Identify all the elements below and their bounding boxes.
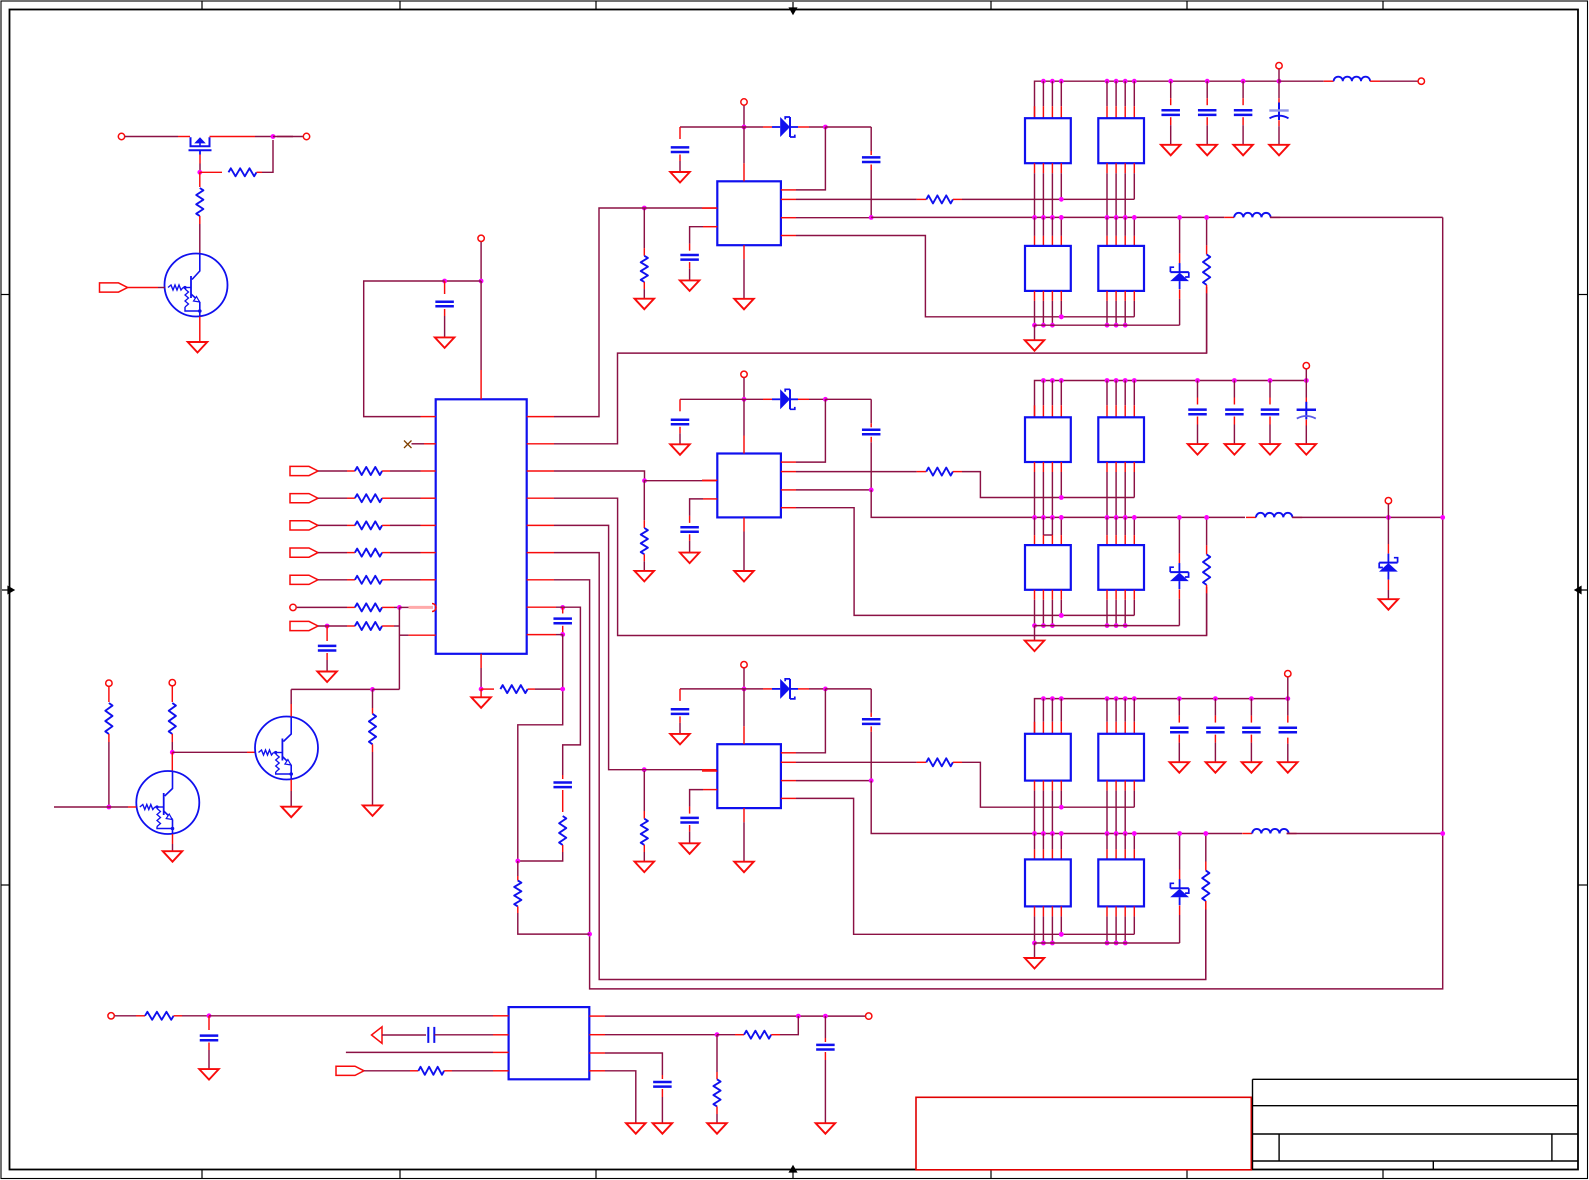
wire pin4 vertical B right — [1133, 217, 1135, 236]
wire — [517, 906, 519, 913]
wire — [210, 136, 256, 138]
junction dot — [642, 767, 647, 772]
zener DZ2out — [1387, 517, 1389, 544]
ground — [1206, 762, 1226, 773]
resistor R14 — [517, 861, 519, 876]
transistor Q2 digital — [165, 254, 228, 317]
ic T3B — [1098, 734, 1144, 781]
junction dot — [1050, 79, 1055, 84]
wire — [679, 155, 681, 162]
no-connect X pin L2 — [404, 441, 412, 449]
wire pin vertical — [1106, 781, 1108, 791]
junction dot — [1041, 323, 1046, 328]
ground — [680, 843, 700, 854]
wire — [382, 497, 390, 499]
wire — [743, 668, 745, 689]
wire pin vertical — [1042, 163, 1044, 173]
wire pin vertical — [1106, 834, 1108, 850]
wire pin vertical — [1124, 517, 1126, 535]
resistor RL1 — [643, 208, 645, 248]
border tick top — [595, 1, 597, 10]
capacitor C4 — [562, 775, 564, 779]
ground — [1188, 444, 1208, 455]
border tick bottom — [990, 1170, 992, 1180]
wire line B bank2 right — [1292, 516, 1443, 518]
wire — [171, 734, 173, 742]
junction dot — [869, 488, 874, 493]
wire pin vertical low — [1115, 291, 1117, 301]
junction dot — [1041, 623, 1046, 628]
wire to line A bank2 — [953, 471, 962, 473]
junction dot — [1123, 323, 1128, 328]
wire pin — [1115, 81, 1117, 106]
wire — [1206, 117, 1208, 125]
wire — [318, 524, 347, 526]
zener DZ1 — [1179, 217, 1181, 253]
wire Q4 collector — [290, 704, 292, 717]
ic T3A — [1025, 734, 1071, 781]
junction dot — [1123, 941, 1128, 946]
wire pin vertical — [1115, 517, 1117, 535]
title block divider — [1432, 1161, 1434, 1169]
wire pin vertical low — [1051, 291, 1053, 301]
wire pin vertical — [1124, 781, 1126, 791]
ic T2C — [1025, 545, 1071, 590]
resistor RA2 — [926, 468, 953, 476]
wire pin — [1124, 699, 1126, 722]
wire pin L1 — [702, 479, 717, 481]
junction dot — [1050, 378, 1055, 383]
ground — [734, 299, 754, 310]
wire pin4 vertical B — [1060, 834, 1062, 850]
wire — [645, 480, 703, 482]
wire U1.R3 to reg2 — [527, 470, 554, 472]
wire — [1214, 735, 1216, 743]
wire pin — [1124, 81, 1126, 106]
wire U1.R6 feedback3 — [527, 552, 554, 554]
ic REG2 — [717, 454, 781, 518]
wire ground bus — [1035, 942, 1180, 944]
wire pin vertical — [1051, 217, 1053, 236]
wire pin vertical low — [1042, 291, 1044, 301]
wire — [1250, 699, 1252, 716]
resistor R16 — [145, 1012, 174, 1020]
wire pin — [1133, 699, 1135, 722]
ground — [734, 571, 754, 582]
capacitor C3 — [562, 607, 564, 613]
wire pin — [1060, 381, 1062, 406]
wire top pin — [743, 689, 745, 726]
wire pin — [1106, 81, 1108, 106]
wire gate stem — [199, 155, 201, 164]
wire — [128, 287, 159, 289]
wire pin vertical — [1051, 462, 1053, 472]
resistor RA — [355, 467, 382, 475]
ground — [635, 571, 655, 582]
wire pin — [1051, 81, 1053, 106]
wire — [640, 769, 702, 771]
wire — [318, 552, 347, 554]
wire pin vertical — [1034, 462, 1036, 472]
junction dot — [1105, 515, 1110, 520]
wire reg3 R2 — [781, 761, 796, 763]
wire — [744, 398, 763, 400]
wire pin vertical low — [1051, 906, 1053, 916]
junction dot — [1177, 515, 1182, 520]
terminal P3 — [478, 235, 484, 241]
border tick right — [1579, 294, 1589, 296]
resistor R8 — [355, 603, 382, 611]
wire — [1278, 69, 1280, 81]
wire pin vertical low — [1106, 906, 1108, 916]
junction dot — [1205, 79, 1210, 84]
capacitor CF22 — [1225, 408, 1244, 411]
wire — [556, 607, 580, 775]
ic REG3 — [717, 744, 781, 808]
wire pin vertical — [1034, 834, 1036, 850]
resistor R17 — [418, 1067, 444, 1075]
border centermark arrow top — [790, 2, 797, 14]
wire ground bus — [1035, 625, 1180, 627]
resistor R18 — [744, 1031, 771, 1039]
junction dot — [1268, 378, 1273, 383]
ground — [635, 299, 655, 310]
wire reg2 R2 — [781, 471, 796, 473]
wire resistor branch — [372, 689, 374, 708]
junction dot — [1050, 941, 1055, 946]
wire — [1034, 626, 1036, 641]
wire — [209, 1015, 493, 1017]
wire — [689, 825, 691, 832]
junction dot — [1050, 623, 1055, 628]
wire pin L3 — [346, 1051, 493, 1053]
ic T3C — [1025, 859, 1071, 906]
transistor Q3 digital — [136, 771, 199, 834]
junction dot — [1123, 215, 1128, 220]
wire — [382, 470, 390, 472]
wire cap chain to line B bank3 — [871, 781, 1242, 834]
wire — [364, 1070, 410, 1072]
wire — [318, 497, 347, 499]
wire — [382, 1034, 426, 1036]
junction dot — [1105, 831, 1110, 836]
wire emitter — [199, 317, 201, 342]
junction dot — [1050, 215, 1055, 220]
border tick left — [1, 884, 10, 886]
wire pin R1 — [781, 752, 796, 754]
wire pin vertical — [1051, 781, 1053, 791]
junction dot — [1132, 515, 1137, 520]
wire pin4 vertical A — [1060, 462, 1062, 472]
junction dot — [742, 687, 747, 692]
wire Q4 emitter — [290, 780, 292, 792]
junction dot — [1059, 314, 1064, 319]
capacitor CP3 polarized — [1279, 726, 1298, 729]
terminal VOUT1top — [1276, 62, 1282, 68]
wire pin vertical low — [1124, 291, 1126, 301]
wire highlighted net — [409, 606, 433, 609]
wire — [1287, 738, 1289, 744]
wire reg1 R3 line B left — [781, 217, 796, 219]
junction dot — [1032, 623, 1037, 628]
wire reg3 R3 — [781, 780, 796, 782]
wire — [679, 716, 681, 723]
wire — [257, 171, 263, 173]
ground — [670, 172, 690, 183]
wire — [273, 136, 293, 138]
wire — [326, 653, 328, 660]
wire pin vertical low — [1106, 291, 1108, 301]
wire pin vertical — [1106, 517, 1108, 535]
capacitor CB1 — [870, 127, 872, 151]
ground — [670, 444, 690, 455]
wire bus to inductor — [1279, 80, 1324, 82]
junction dot — [715, 1032, 720, 1037]
junction dot — [869, 778, 874, 783]
diode D1 — [772, 126, 780, 128]
junction dot — [370, 687, 375, 692]
terminal P4 — [290, 604, 296, 610]
connector flag IND — [290, 548, 318, 557]
wire pin R1 — [781, 461, 796, 463]
junction dot — [1114, 941, 1119, 946]
border tick top — [201, 1, 203, 10]
ground — [1379, 599, 1399, 610]
inductor L1 — [1224, 216, 1234, 218]
wire — [1206, 81, 1208, 98]
wire pin L1 — [702, 207, 717, 209]
ground — [317, 672, 337, 683]
capacitor C6 series — [427, 1027, 429, 1043]
junction dot — [170, 750, 175, 755]
junction dot — [1041, 831, 1046, 836]
ground — [1260, 444, 1280, 455]
wire pin — [1106, 381, 1108, 406]
wire — [689, 534, 691, 541]
wire — [1233, 381, 1235, 398]
wire — [382, 625, 394, 627]
junction dot — [1386, 515, 1391, 520]
border tick right — [1579, 884, 1589, 886]
wire — [717, 1034, 735, 1036]
junction dot — [1059, 932, 1064, 937]
wire — [382, 552, 390, 554]
wire pin vertical low — [1034, 906, 1036, 916]
junction dot — [1032, 515, 1037, 520]
wire pin vertical — [1042, 781, 1044, 791]
ground — [1025, 340, 1045, 351]
wire pin vertical — [1124, 834, 1126, 850]
junction dot — [642, 478, 647, 483]
resistor R11 — [169, 703, 176, 734]
capacitor CF23 — [1261, 408, 1280, 411]
wire — [480, 242, 482, 281]
wire top pin — [743, 399, 745, 435]
wire pin vertical — [1115, 217, 1117, 236]
wire — [444, 1070, 452, 1072]
wire — [1034, 325, 1036, 340]
wire — [1233, 417, 1235, 425]
junction dot — [1059, 495, 1064, 500]
junction dot — [1059, 831, 1064, 836]
junction dot — [1041, 515, 1046, 520]
wire — [640, 207, 702, 209]
wire reg3 R4 to line A2 — [781, 797, 796, 799]
junction dot — [1177, 831, 1182, 836]
wire pin vertical — [1051, 834, 1053, 850]
wire — [1278, 120, 1280, 126]
wire — [1178, 699, 1180, 716]
resistor R13 — [559, 816, 566, 845]
inductor L2 — [1246, 516, 1256, 518]
capacitor CI3 — [671, 708, 690, 711]
connector flag IN1 — [100, 283, 128, 292]
zener DZ3 — [1179, 834, 1181, 870]
ground — [1170, 762, 1190, 773]
wire — [1034, 943, 1036, 958]
wire pin — [1051, 381, 1053, 406]
title block left edge — [1252, 1079, 1254, 1169]
junction dot — [1114, 623, 1119, 628]
wire U1 bottom pin — [480, 654, 482, 668]
wire — [1197, 417, 1199, 425]
resistor R10 — [105, 703, 112, 734]
terminal P1 — [118, 133, 124, 139]
junction dot — [823, 1014, 828, 1019]
ground — [653, 1123, 673, 1134]
ground — [471, 697, 491, 708]
junction dot — [1123, 831, 1128, 836]
junction dot — [1304, 378, 1309, 383]
wire line B bank3 right — [1287, 833, 1443, 835]
capacitor CF33 — [1242, 726, 1261, 729]
junction dot — [560, 687, 565, 692]
terminal VOUT3top — [1285, 671, 1291, 677]
junction dot — [1204, 515, 1209, 520]
junction dot — [107, 805, 112, 810]
wire pin R2 — [589, 1034, 605, 1036]
resistor RF1 — [1206, 217, 1208, 245]
junction dot — [742, 125, 747, 130]
wire reg1 R2 to line A — [781, 198, 796, 200]
junction dot — [560, 632, 565, 637]
ic T1C — [1025, 246, 1071, 291]
wire U1.R8 — [527, 606, 556, 608]
junction dot — [442, 279, 447, 284]
wire pin vertical low — [1124, 906, 1126, 916]
diode D2 — [772, 398, 780, 400]
wire — [744, 126, 763, 128]
wire power bus — [1035, 381, 1307, 418]
capacitor CP1 polarized — [1278, 103, 1280, 121]
ground — [635, 862, 655, 873]
junction dot — [1232, 378, 1237, 383]
junction dot — [1241, 79, 1246, 84]
wire pin L2 cap — [703, 789, 717, 791]
wire pin vertical low — [1051, 590, 1053, 600]
border tick top — [1186, 1, 1188, 10]
junction dot — [1059, 613, 1064, 618]
junction dot — [1132, 378, 1137, 383]
wire U1.R1 to reg1 — [527, 416, 554, 418]
wire — [291, 688, 372, 690]
ic T3D — [1098, 859, 1144, 906]
wire — [1214, 699, 1216, 716]
wire pin vertical — [1124, 163, 1126, 173]
wire pin vertical — [1115, 781, 1117, 791]
capacitor C8 — [661, 1075, 663, 1079]
junction dot — [397, 605, 402, 610]
junction dot — [1105, 323, 1110, 328]
wire pin vertical — [1124, 217, 1126, 236]
wire pin vertical — [1106, 217, 1108, 236]
wire pin vertical — [1034, 163, 1036, 173]
wire — [444, 309, 446, 316]
wire — [108, 687, 110, 702]
junction dot — [823, 397, 828, 402]
junction dot — [560, 605, 565, 610]
wire pin4 vertical A — [1060, 781, 1062, 791]
resistor RB — [355, 494, 382, 502]
wire — [1305, 381, 1307, 398]
ground — [670, 734, 690, 745]
wire pin4 vertical A right — [1133, 462, 1135, 472]
ground — [816, 1123, 836, 1134]
junction dot — [1132, 831, 1137, 836]
junction dot — [1059, 314, 1064, 319]
resistor RL3 — [643, 771, 645, 811]
terminal VOUT1 — [1418, 78, 1424, 84]
ground — [363, 805, 383, 816]
wire reg2 R3 — [781, 489, 796, 491]
junction dot — [1105, 378, 1110, 383]
connector flag IN10 — [336, 1066, 364, 1075]
wire pin vertical — [1042, 834, 1044, 850]
wire pin vertical — [1106, 163, 1108, 173]
wire — [680, 398, 744, 400]
wire pin — [1133, 81, 1135, 106]
wire pin4 low right — [1133, 590, 1135, 600]
wire — [1197, 381, 1199, 398]
wire — [115, 1015, 136, 1017]
wire pin vertical low — [1115, 590, 1117, 600]
wire — [798, 398, 809, 400]
connector flag INC — [290, 521, 318, 530]
ground — [281, 807, 301, 818]
resistor R12 — [369, 714, 376, 745]
wire pin R1 — [781, 189, 796, 191]
resistor RF2 — [1206, 517, 1208, 545]
border centermark arrow left — [2, 587, 14, 594]
junction dot — [515, 859, 520, 864]
wire — [382, 524, 390, 526]
wire — [1287, 699, 1289, 716]
wire pin4 low — [1060, 291, 1062, 301]
wire cap branch — [444, 281, 446, 294]
wire pin — [1042, 699, 1044, 722]
wire — [1387, 504, 1389, 517]
junction dot — [1050, 323, 1055, 328]
title block red box — [916, 1097, 1251, 1170]
terminal VIN1 — [741, 99, 747, 105]
terminal P2 — [303, 133, 309, 139]
junction dot — [796, 1014, 801, 1019]
inductor L1out — [1334, 77, 1370, 82]
ic U1 — [436, 399, 527, 654]
wire power bus — [1035, 81, 1280, 118]
junction dot — [1105, 623, 1110, 628]
junction dot — [1114, 323, 1119, 328]
